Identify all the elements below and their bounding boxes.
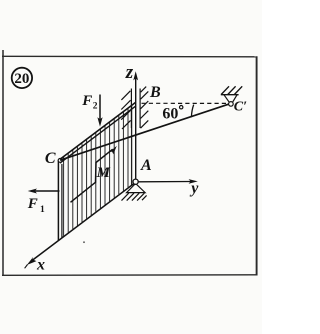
force F1 (left arrow at plate left edge)	[27, 189, 60, 215]
svg-text:M: M	[96, 165, 111, 181]
svg-text:x: x	[36, 257, 45, 274]
svg-text:B: B	[149, 84, 161, 101]
rod C C'	[60, 104, 229, 160]
plate left edge (double line)	[57, 160, 59, 240]
svg-text:C: C	[45, 150, 56, 167]
moment M (bent arrow in plate plane)	[71, 146, 117, 202]
plate top edge (double line)	[60, 102, 136, 159]
svg-text:C′: C′	[234, 100, 247, 115]
problem number badge 20	[12, 68, 32, 88]
svg-text:z: z	[125, 62, 134, 83]
svg-text:20: 20	[14, 71, 29, 87]
y axis	[138, 179, 199, 197]
plate hatching	[64, 106, 132, 236]
scan speck	[83, 241, 85, 243]
plate (vertical hatched parallelogram)	[58, 102, 135, 240]
svg-text:y: y	[189, 180, 199, 197]
pin support at A	[122, 179, 147, 201]
z axis	[125, 62, 138, 180]
x axis (runs along plate bottom edge)	[25, 183, 135, 273]
force F2 (down arrow onto plate top edge)	[81, 93, 102, 127]
dashed construction line B to C'	[142, 102, 227, 104]
wall pin support at C'	[221, 86, 242, 106]
border frame	[2, 50, 257, 276]
sleeve support at B (hatched wall strips)	[121, 87, 148, 129]
svg-text:A: A	[140, 157, 152, 174]
angle arc 60	[191, 105, 193, 118]
svg-text:60: 60	[162, 106, 178, 123]
corner point C	[58, 159, 62, 163]
